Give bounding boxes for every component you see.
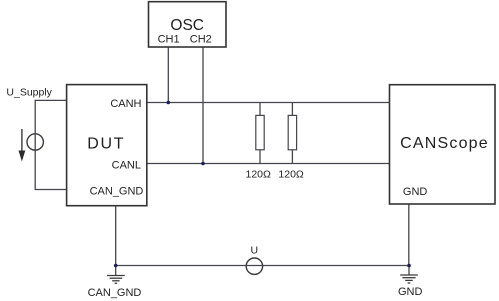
- svg-text:OSC: OSC: [170, 17, 204, 34]
- svg-text:CAN_GND: CAN_GND: [90, 185, 144, 197]
- svg-text:U_Supply: U_Supply: [6, 87, 52, 99]
- svg-text:CANL: CANL: [112, 160, 141, 172]
- svg-text:CH2: CH2: [190, 34, 212, 46]
- svg-text:CANH: CANH: [110, 98, 141, 110]
- svg-text:CANScope: CANScope: [400, 135, 489, 152]
- svg-text:CAN_GND: CAN_GND: [88, 287, 142, 299]
- svg-text:120Ω: 120Ω: [246, 168, 272, 180]
- svg-text:CH1: CH1: [158, 34, 180, 46]
- svg-text:GND: GND: [403, 186, 428, 198]
- svg-text:DUT: DUT: [87, 135, 125, 152]
- svg-text:U: U: [251, 245, 259, 257]
- svg-text:120Ω: 120Ω: [278, 168, 304, 180]
- svg-text:GND: GND: [398, 286, 423, 298]
